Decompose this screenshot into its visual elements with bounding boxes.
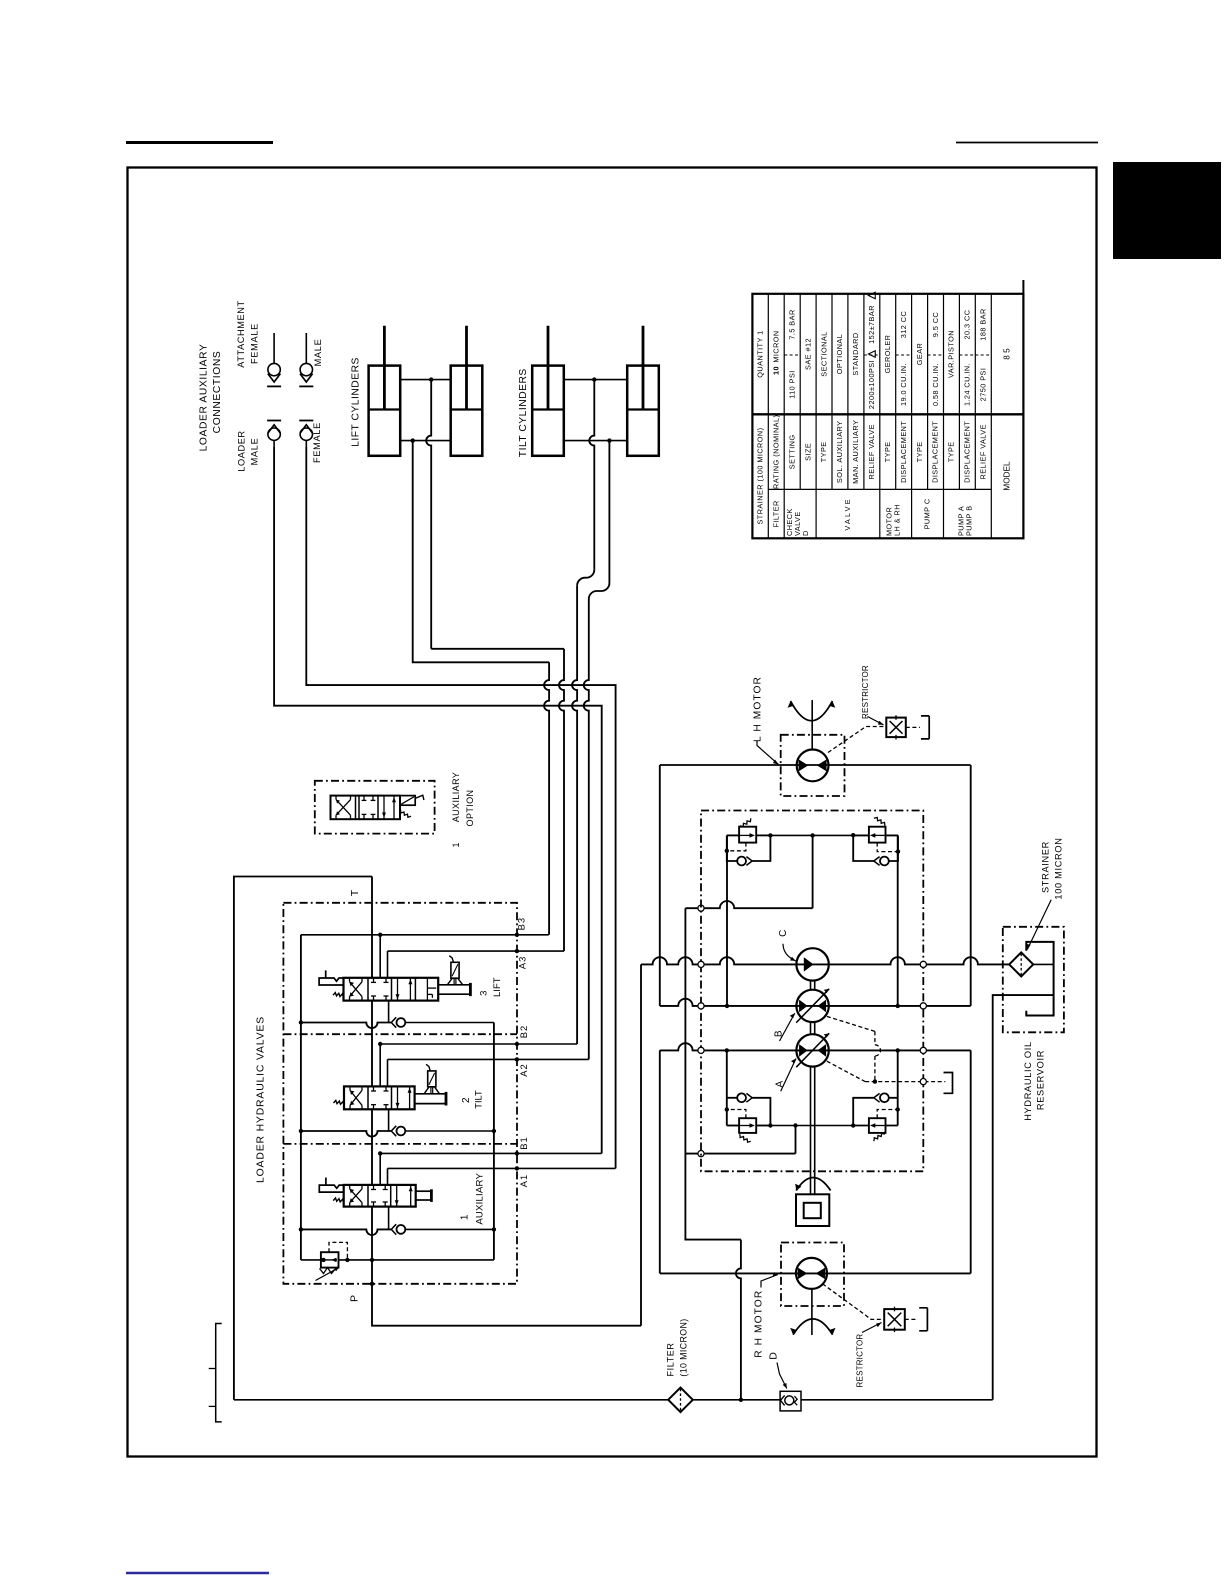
LH motor loop line — [660, 764, 971, 766]
cylinder lift 2 — [451, 366, 483, 456]
svg-text:(10 MICRON): (10 MICRON) — [678, 1318, 688, 1376]
valve 3 LIFT — [344, 978, 439, 1001]
svg-text:RESERVOIR: RESERVOIR — [1036, 1050, 1046, 1110]
svg-text:TILT CYLINDERS: TILT CYLINDERS — [518, 368, 529, 457]
wire tilt rod-side — [564, 379, 627, 381]
wire port A2 — [388, 1058, 589, 1060]
check valve D — [780, 1391, 801, 1411]
svg-text:OPTIONAL: OPTIONAL — [835, 334, 844, 375]
auxiliary option enclosure — [315, 781, 435, 834]
check valve lift bypass — [301, 1023, 391, 1029]
svg-text:R H MOTOR: R H MOTOR — [754, 1290, 765, 1358]
svg-text:MICRON: MICRON — [771, 330, 780, 362]
makeup check LH-right — [889, 835, 898, 861]
svg-text:188 BAR: 188 BAR — [979, 308, 988, 340]
crossover relief RH-left — [727, 1125, 739, 1127]
crossover wire LH center — [770, 834, 853, 836]
svg-text:RELIEF VALVE: RELIEF VALVE — [867, 424, 876, 479]
valve port stubs TILT — [379, 1044, 381, 1086]
svg-text:2: 2 — [461, 1097, 472, 1103]
svg-text:SECTIONAL: SECTIONAL — [819, 331, 828, 376]
valve auxiliary option solenoid valve — [331, 796, 401, 820]
svg-text:B2: B2 — [518, 1025, 529, 1038]
svg-text:SAE #12: SAE #12 — [803, 338, 812, 370]
strainer 100 micron — [1009, 952, 1033, 976]
svg-text:GEROLER: GEROLER — [883, 335, 892, 374]
svg-text:D: D — [801, 530, 810, 536]
svg-text:C: C — [778, 930, 789, 937]
svg-text:PUMP C: PUMP C — [923, 498, 932, 529]
wire lift head-side — [400, 440, 451, 442]
svg-text:LIFT CYLINDERS: LIFT CYLINDERS — [351, 357, 362, 447]
svg-text:VAR.PISTON: VAR.PISTON — [947, 330, 956, 378]
svg-text:20.3 CC: 20.3 CC — [963, 310, 972, 340]
wire lift rod to port A3 — [426, 380, 431, 649]
valve 2 TILT — [344, 1086, 415, 1109]
svg-text:B1: B1 — [518, 1136, 529, 1149]
wire lower center link — [685, 1153, 795, 1155]
filter 10 micron — [234, 1399, 668, 1401]
solenoid actuator of auxiliary option valve — [400, 796, 415, 806]
relief valve loader main — [301, 1259, 494, 1261]
svg-text:FEMALE: FEMALE — [312, 422, 322, 463]
enclosure motor LH — [781, 735, 845, 796]
svg-text:0.58 CU.IN.: 0.58 CU.IN. — [931, 363, 940, 406]
svg-text:RESTRICTOR: RESTRICTOR — [855, 1334, 864, 1388]
svg-text:PUMP B: PUMP B — [964, 505, 973, 536]
wire loader male coupler to port B1 — [274, 447, 602, 1153]
svg-text:2750 PSI: 2750 PSI — [979, 368, 988, 402]
svg-text:110 PSI: 110 PSI — [787, 370, 796, 399]
svg-text:VALVE: VALVE — [843, 497, 852, 530]
svg-text:LIFT: LIFT — [492, 977, 503, 997]
wire tilt head-side — [564, 440, 627, 442]
svg-text:7.5 BAR: 7.5 BAR — [787, 309, 796, 339]
svg-text:SOL. AUXILIARY: SOL. AUXILIARY — [835, 421, 844, 484]
servo pilot dashed lines of pumps A/B — [827, 1016, 875, 1031]
svg-text:GEAR: GEAR — [915, 343, 924, 365]
enclosure motor RH — [781, 1243, 844, 1307]
svg-text:TYPE: TYPE — [883, 441, 892, 462]
svg-text:OPTION: OPTION — [465, 790, 475, 827]
tank return line: T port, left side and bottom to reservoir — [234, 877, 372, 1400]
valve port stubs LIFT — [379, 935, 381, 978]
right bypass gallery rail — [493, 1023, 495, 1260]
svg-text:RELIEF VALVE: RELIEF VALVE — [979, 424, 988, 479]
svg-text:FEMALE: FEMALE — [250, 323, 260, 364]
makeup check RH-right — [889, 1097, 898, 1099]
svg-text:152±7BAR: 152±7BAR — [867, 305, 876, 344]
wire crossover taps — [726, 835, 728, 1006]
pump drive shaft — [810, 981, 812, 990]
svg-text:LOADER: LOADER — [237, 430, 247, 471]
svg-text:T: T — [349, 889, 361, 896]
crossover relief LH-left — [727, 834, 739, 836]
crossover relief RH-right — [853, 1125, 898, 1127]
makeup check LH-left — [727, 835, 737, 861]
svg-text:STRAINER: STRAINER — [1041, 841, 1051, 893]
svg-text:CONNECTIONS: CONNECTIONS — [212, 351, 223, 434]
svg-text:RESTRICTOR: RESTRICTOR — [861, 665, 870, 719]
svg-text:HYDRAULIC OIL: HYDRAULIC OIL — [1023, 1041, 1033, 1121]
svg-text:10: 10 — [771, 366, 780, 375]
svg-text:TYPE: TYPE — [819, 441, 828, 462]
valve port stubs AUXILIARY — [379, 1153, 381, 1185]
valve block enclosure (dash-dot) — [283, 903, 517, 1284]
svg-text:L H MOTOR: L H MOTOR — [752, 676, 763, 742]
motor RH — [796, 1258, 827, 1289]
svg-text:8 5: 8 5 — [1002, 348, 1011, 360]
pump C — [796, 948, 828, 980]
RH motor loop line — [660, 1272, 971, 1274]
svg-text:STANDARD: STANDARD — [851, 332, 860, 375]
svg-text:312 CC: 312 CC — [899, 311, 908, 338]
svg-text:A1: A1 — [518, 1174, 529, 1187]
svg-text:2200±100PSI: 2200±100PSI — [867, 360, 876, 409]
svg-text:LH & RH: LH & RH — [893, 504, 902, 536]
crossover wire RH center — [770, 1125, 853, 1127]
wire loader female coupler to port A1 — [306, 447, 615, 1168]
svg-text:SIZE: SIZE — [803, 443, 812, 461]
wire pump B loop — [659, 765, 661, 1006]
svg-text:DISPLACEMENT: DISPLACEMENT — [931, 421, 940, 483]
svg-text:MODEL: MODEL — [1002, 461, 1011, 491]
wire charge center to pump side — [812, 835, 814, 908]
cylinder tilt 1 — [532, 366, 564, 456]
motor LH — [797, 750, 829, 782]
wire port A1 — [388, 1167, 616, 1169]
wire center bypass vertical — [685, 908, 741, 1239]
svg-text:AUXILIARY: AUXILIARY — [451, 772, 461, 822]
svg-text:TILT: TILT — [473, 1090, 483, 1109]
pump B — [796, 990, 828, 1022]
engine — [796, 1194, 829, 1226]
svg-text:DISPLACEMENT: DISPLACEMENT — [899, 421, 908, 483]
wire return to tank — [993, 995, 1054, 1400]
svg-text:TYPE: TYPE — [915, 441, 924, 462]
wire port B2 — [380, 1043, 577, 1045]
svg-text:3: 3 — [479, 991, 490, 996]
svg-text:FILTER: FILTER — [665, 1343, 675, 1377]
wire port A3 — [388, 950, 565, 952]
svg-text:19.0 CU.IN.: 19.0 CU.IN. — [899, 363, 908, 406]
svg-text:ATTACHMENT: ATTACHMENT — [236, 300, 246, 367]
wire lift head to port B3 — [413, 441, 549, 663]
svg-text:D: D — [767, 1352, 779, 1360]
wire tilt rod to port B2 — [589, 380, 594, 570]
svg-text:TYPE: TYPE — [947, 441, 956, 462]
svg-text:MALE: MALE — [313, 339, 323, 367]
svg-text:FILTER: FILTER — [771, 500, 780, 527]
valve 1 AUXILIARY — [344, 1185, 416, 1207]
svg-text:100 MICRON: 100 MICRON — [1053, 837, 1063, 899]
pressure/tank center gallery through valves — [372, 877, 641, 1326]
svg-text:DISPLACEMENT: DISPLACEMENT — [963, 421, 972, 483]
restrictor LH — [886, 718, 906, 738]
svg-text:A2: A2 — [518, 1063, 529, 1076]
svg-text:MALE: MALE — [250, 438, 260, 466]
svg-text:1: 1 — [451, 842, 461, 847]
svg-text:MAN. AUXILIARY: MAN. AUXILIARY — [851, 420, 860, 484]
pilot line of loader relief — [329, 1242, 347, 1260]
svg-text:A3: A3 — [517, 956, 528, 969]
spec table — [752, 294, 1023, 539]
page connector bracket — [216, 1324, 222, 1422]
reservoir enclosure — [1003, 927, 1064, 1033]
svg-text:AUXILIARY: AUXILIARY — [475, 1173, 486, 1225]
crossover relief LH-right — [853, 834, 898, 836]
svg-text:LOADER HYDRAULIC VALVES: LOADER HYDRAULIC VALVES — [256, 1016, 267, 1183]
svg-text:LOADER AUXILIARY: LOADER AUXILIARY — [199, 344, 210, 452]
quick coupler loader female / attachment male line — [305, 333, 307, 363]
svg-text:1.24 CU.IN.: 1.24 CU.IN. — [963, 363, 972, 406]
restrictor RH — [884, 1309, 905, 1330]
svg-text:STRAINER (100 MICRON): STRAINER (100 MICRON) — [756, 427, 765, 524]
svg-text:RATING (NOMINAL): RATING (NOMINAL) — [771, 415, 780, 489]
wire port B1 — [380, 1152, 602, 1154]
svg-text:P: P — [348, 1295, 360, 1302]
wire pump A loop — [659, 1050, 661, 1273]
pump enclosure (dash-dot) — [701, 811, 923, 1172]
pump A — [796, 1034, 828, 1066]
svg-text:B3: B3 — [516, 917, 527, 930]
hydraulic oil reservoir tank — [1026, 942, 1053, 1016]
wire pump C suction row — [640, 964, 642, 1325]
cylinder tilt 2 — [627, 366, 659, 456]
quick coupler loader male / attachment female line — [273, 333, 275, 363]
makeup check RH-left — [727, 1097, 737, 1099]
svg-text:QUANTITY 1: QUANTITY 1 — [756, 330, 765, 377]
check valve tilt bypass — [301, 1131, 391, 1137]
svg-text:9.5 CC: 9.5 CC — [931, 312, 940, 337]
left work gallery rail — [300, 935, 302, 1260]
wire lift rod-side — [400, 379, 451, 381]
check valve auxiliary bypass — [301, 1229, 391, 1235]
wire tilt head to port A2 — [608, 441, 610, 583]
svg-text:SETTING: SETTING — [787, 434, 796, 469]
wire port B3 — [301, 934, 549, 936]
cylinder lift 1 — [369, 366, 401, 456]
svg-text:1: 1 — [460, 1214, 471, 1220]
